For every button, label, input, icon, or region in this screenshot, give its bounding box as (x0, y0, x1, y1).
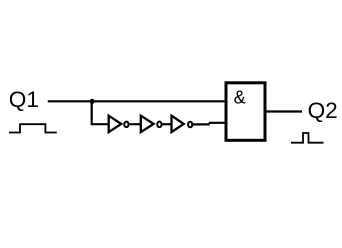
wire inverter 2 to inverter 3 (163, 123, 172, 125)
wire stub AND gate input B (209, 122, 226, 124)
svg-text:Q2: Q2 (308, 98, 338, 123)
node junction (90, 99, 95, 104)
wire AND output to Q2 (266, 110, 302, 112)
wire inverter 3 toward AND gate (193, 123, 210, 125)
wire Q1 to AND gate input A (48, 100, 226, 102)
output pulse waveform (291, 133, 324, 143)
svg-text:Q1: Q1 (9, 87, 39, 112)
svg-text:&: & (234, 88, 246, 108)
inverter 1 (109, 116, 129, 132)
input pulse waveform (9, 124, 57, 132)
inverter 2 (141, 116, 162, 132)
wire junction down to inverter chain (92, 101, 108, 124)
AND gate (226, 83, 265, 141)
inverter 3 (172, 116, 193, 132)
wire inverter 1 to inverter 2 (130, 123, 141, 125)
